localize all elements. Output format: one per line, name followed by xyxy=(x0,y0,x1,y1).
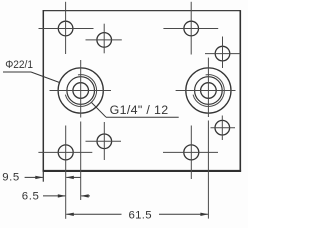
port C5 tap drill circle xyxy=(67,77,95,105)
centerline C10 vertical xyxy=(221,116,223,141)
centerline C7 horizontal xyxy=(38,151,92,153)
centerline C6 vertical upper segment xyxy=(207,58,209,117)
svg-text:9.5: 9.5 xyxy=(2,172,20,184)
plate outline top edge xyxy=(43,10,241,12)
hole C10 right-lower xyxy=(215,120,230,135)
label PHI22/1 underline xyxy=(3,71,31,73)
port C6 thread arc xyxy=(193,75,224,107)
plate outline right edge xyxy=(239,10,241,172)
port C5 inner pilot circle xyxy=(73,83,89,99)
label G1/4 leader diagonal xyxy=(92,103,107,118)
plate outline bottom edge xyxy=(43,170,242,172)
port C6 outer counterbore circle xyxy=(186,68,231,113)
centerline C3 vertical xyxy=(190,2,192,55)
hole C4 right-upper xyxy=(215,46,230,61)
dim 9.5 lead line with right arrow xyxy=(25,176,43,178)
centerline C1 vertical xyxy=(65,2,67,54)
svg-text:6.5: 6.5 xyxy=(22,190,40,202)
centerline C8 horizontal xyxy=(86,140,122,142)
centerline C7 vertical (extends to dims) xyxy=(65,126,67,219)
port C5 thread arc xyxy=(65,75,96,107)
hole C1 top-left xyxy=(58,21,73,36)
centerline C6 horizontal xyxy=(176,90,236,92)
centerline C5 vertical upper segment xyxy=(80,60,82,118)
hole C3 top-right xyxy=(184,21,199,36)
port C5 outer counterbore circle xyxy=(58,68,103,113)
hole C2 upper-mid-left xyxy=(97,33,112,48)
dim 9.5 extension line (plate left edge) xyxy=(42,171,44,182)
dim 9.5 tail line with left arrow xyxy=(66,176,80,178)
centerline C1 horizontal xyxy=(39,28,94,30)
hole C9 bottom-right xyxy=(184,145,199,160)
centerline C6 vertical lower segment (extends to 61.5 dim) xyxy=(207,121,209,219)
dim 6.5 lead line with right arrow xyxy=(43,195,65,197)
hole C7 bottom-left xyxy=(58,145,73,160)
svg-text:G1/4" / 12: G1/4" / 12 xyxy=(110,103,169,117)
plate outline left edge xyxy=(42,10,44,171)
centerline C2 horizontal xyxy=(86,39,122,41)
label PHI22/1 leader diagonal xyxy=(31,72,60,83)
hole C8 lower-mid-left xyxy=(97,134,112,149)
centerline C5 vertical lower segment (extends to 6.5 dim) xyxy=(80,122,82,201)
svg-text:Φ22/1: Φ22/1 xyxy=(5,58,33,71)
centerline C5 horizontal xyxy=(50,90,112,92)
port C6 tap drill circle xyxy=(195,77,223,105)
centerline C4 horizontal xyxy=(205,53,240,55)
svg-text:61.5: 61.5 xyxy=(129,210,152,222)
centerline C9 vertical xyxy=(190,126,192,180)
centerline C2 vertical xyxy=(103,24,105,54)
centerline C4 vertical xyxy=(222,37,224,69)
dim 6.5 tail line with left arrow xyxy=(81,195,90,197)
dim 61.5 left segment with left-pointing arrow xyxy=(66,213,121,215)
label G1/4 underline xyxy=(106,116,179,118)
centerline C9 horizontal xyxy=(163,151,218,153)
centerline C3 horizontal xyxy=(163,28,218,30)
dim 61.5 right segment with right-pointing arrow xyxy=(159,213,208,215)
port C6 inner pilot circle xyxy=(201,83,217,99)
centerline C10 horizontal xyxy=(211,127,236,129)
centerline C8 vertical xyxy=(103,122,105,160)
